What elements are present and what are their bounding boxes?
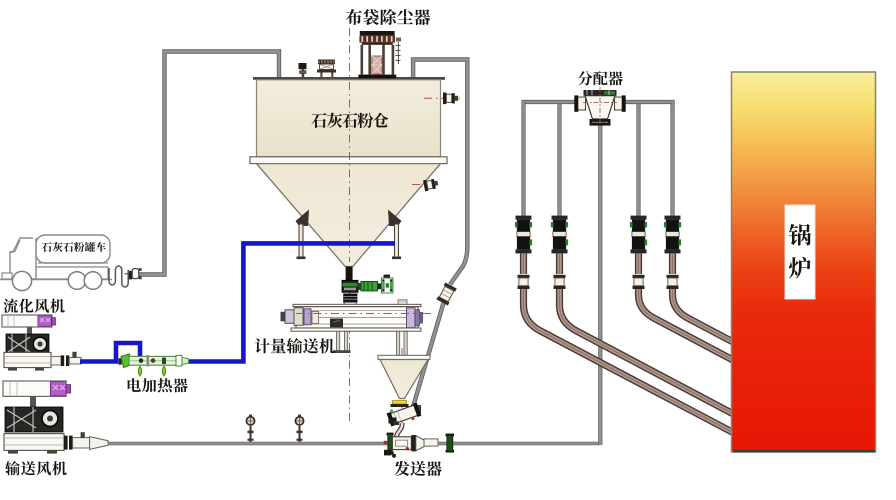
wire gray pipe truck unloading line to silo top xyxy=(139,52,279,275)
wire blue fluidizing air line from blower B1 through heater to silo cone xyxy=(80,243,395,361)
node level-probe centerline upper xyxy=(424,97,460,99)
node conveyor centerline overlay xyxy=(296,313,417,315)
node silo vertical centerline (dash-dot) xyxy=(349,28,351,425)
valve V5 dome valve on injection line 2 xyxy=(551,216,568,254)
splitter D1 分配器 four-way distributor xyxy=(574,71,625,126)
valve V3 inline fitting on vent diagonal xyxy=(436,283,456,306)
vessel U1 石灰石粉仓 limestone powder silo xyxy=(250,77,447,281)
node small hopper centerline xyxy=(401,348,403,431)
pipe injection line 3 to boiler xyxy=(633,254,734,361)
node metering conveyor horizontal centerline xyxy=(283,313,433,315)
truck 石灰石粉罐车 limestone powder tanker xyxy=(0,235,142,291)
node level-probe centerline lower xyxy=(412,184,440,186)
pipe injection line 4 to boiler xyxy=(667,254,734,343)
blower B1 流化风机 fluidizing air blower xyxy=(2,299,81,371)
wire main conveying pipe from conveying fan to sender to distributor riser xyxy=(104,125,600,445)
sensor LS1 upper level probe on silo right wall xyxy=(443,93,458,105)
conveyor M2 计量输送机 metering screw conveyor xyxy=(255,300,423,355)
valve V6 dome valve on injection line 3 xyxy=(630,216,647,254)
sensor LS2 lower level probe on silo cone xyxy=(423,178,439,192)
pipe injection line 1 to boiler xyxy=(518,254,734,433)
valve V2 silo-top pressure relief dome xyxy=(317,60,336,78)
valve V4 dome valve on injection line 1 xyxy=(515,216,532,254)
hopper H2 weighing hopper with discharge valve and elbow xyxy=(378,355,430,436)
blower B2 输送风机 conveying air blower xyxy=(3,381,108,475)
heater E1 电加热器 electric air heater xyxy=(119,354,189,392)
sensor PG1 pressure gauge on conveying pipe xyxy=(246,415,254,442)
node silo centerline overlay xyxy=(349,82,351,262)
feeder M1 rotary feeder with drive motor under silo xyxy=(342,275,393,308)
filter F1 布袋除尘器 bag dust collector xyxy=(346,9,430,78)
pipe injection line 2 to boiler xyxy=(554,254,734,414)
wire distributor manifold and four drop pipes xyxy=(522,102,675,216)
wire gray vent pipe from silo top to feeder (with diagonal run) xyxy=(412,60,468,413)
boiler 锅炉 xyxy=(732,72,876,452)
sensor PG2 pressure gauge on conveying pipe xyxy=(295,415,303,442)
valve V1 silo-top small relief valve xyxy=(299,63,307,77)
injector P1 发送器 pneumatic sender on conveying line xyxy=(384,433,455,476)
valve V7 dome valve on injection line 4 xyxy=(664,216,681,254)
